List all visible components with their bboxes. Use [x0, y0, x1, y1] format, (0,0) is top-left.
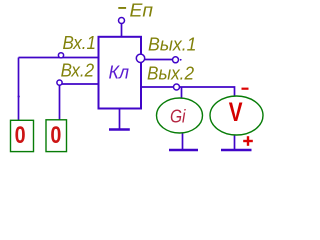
- svg-text:0: 0: [15, 122, 26, 149]
- svg-text:Вх.2: Вх.2: [61, 61, 95, 81]
- svg-text:Gi: Gi: [170, 107, 186, 127]
- svg-text:Еп: Еп: [130, 1, 154, 21]
- svg-text:Вых.1: Вых.1: [148, 34, 197, 54]
- svg-text:0: 0: [50, 122, 61, 149]
- svg-text:V: V: [229, 97, 243, 127]
- svg-text:Вых.2: Вых.2: [147, 64, 194, 84]
- svg-text:Кл: Кл: [109, 63, 130, 83]
- svg-text:Вх.1: Вх.1: [63, 33, 97, 53]
